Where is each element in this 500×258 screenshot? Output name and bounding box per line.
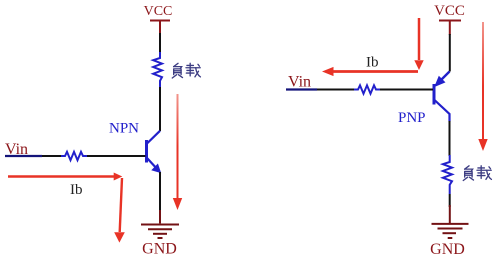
current arrow Ic (left, long, down) (173, 94, 182, 210)
wire load resistor to collector (left) (159, 87, 161, 131)
ground GND (right) (432, 205, 469, 238)
label 负载 (left) : hanzi FU (172, 63, 182, 78)
current arrow Ib vertical down (left) (114, 178, 125, 243)
wire base resistor to base (right) (380, 89, 433, 91)
current arrow Ib (right, pointing left) (322, 67, 418, 76)
svg-text:GND: GND (430, 241, 465, 258)
label 负载 (left) : hanzi ZAI (186, 63, 200, 77)
wire collector to load resistor (right) (449, 121, 451, 156)
svg-text:PNP: PNP (398, 110, 426, 126)
current arrow Ib horizontal (left) (8, 173, 122, 181)
wire VCC to load resistor (left) (159, 33, 161, 53)
power symbol VCC (right) (439, 21, 461, 36)
svg-text:VCC: VCC (144, 4, 173, 19)
resistor R3 base (right) (354, 85, 380, 93)
wire emitter to ground (left) (159, 172, 161, 213)
transistor Q2 PNP (434, 72, 450, 122)
wire load resistor to ground (right) (449, 194, 451, 207)
svg-text:NPN: NPN (109, 121, 139, 137)
resistor R4 load (right) (443, 155, 452, 194)
wire navy to base resistor (right) (317, 89, 354, 91)
wire VCC to emitter (right) (449, 34, 451, 72)
svg-text:VCC: VCC (434, 3, 465, 19)
ground GND (left) (141, 210, 179, 238)
wire Vin stub navy (left) (5, 155, 42, 157)
svg-text:GND: GND (142, 241, 177, 258)
power symbol VCC (left) (150, 21, 170, 35)
svg-text:Ib: Ib (366, 55, 379, 71)
wire Vin stub navy (right) (286, 88, 317, 90)
label 负载 (right) : hanzi ZAI (477, 166, 491, 180)
current arrow Ie (right, down into emitter) (414, 18, 423, 70)
resistor R2 base (left) (61, 152, 87, 160)
label 负载 (right) : hanzi FU (463, 166, 473, 181)
transistor Q1 NPN (147, 131, 161, 173)
wire base resistor to base (left) (87, 155, 146, 157)
svg-text:Vin: Vin (288, 74, 311, 91)
wire navy to base resistor (left) (42, 155, 61, 157)
svg-text:Ib: Ib (70, 182, 83, 198)
resistor R1 load (left) (153, 52, 162, 87)
current arrow Ic (right, long, down) (478, 22, 487, 151)
